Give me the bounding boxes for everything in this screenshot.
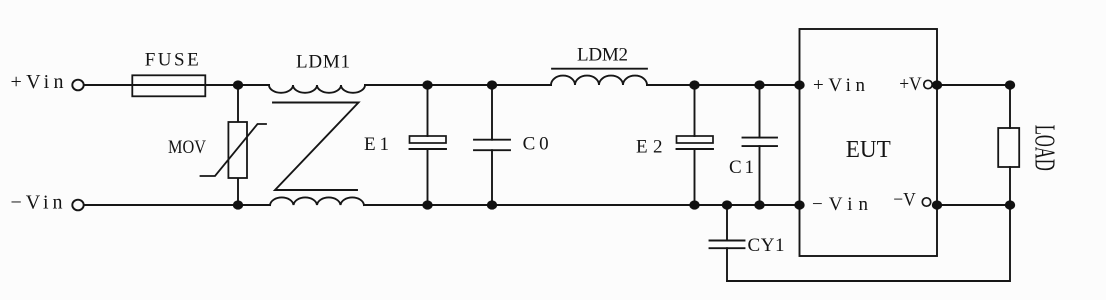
- capacitor C1: [743, 85, 778, 205]
- svg-text:+V: +V: [899, 74, 922, 95]
- svg-text:−V: −V: [893, 190, 916, 211]
- svg-text:−Vin: −Vin: [11, 191, 63, 213]
- terminal +Vin: [72, 80, 83, 91]
- junction dot C0 bottom: [487, 200, 497, 209]
- capacitor E2: [677, 85, 714, 205]
- junction dot C0 top: [487, 80, 497, 89]
- wire top rail left: [84, 84, 269, 86]
- svg-text:+Vin: +Vin: [813, 75, 866, 96]
- svg-text:−Vin: −Vin: [812, 194, 869, 215]
- wire bottom rail left: [84, 204, 270, 206]
- junction dot fuse/MOV top: [233, 80, 243, 89]
- junction dot C1 top: [754, 80, 764, 89]
- wire +Vo to LOAD: [937, 84, 1010, 86]
- terminal -Vin: [72, 200, 83, 211]
- junction dot -Vo: [932, 200, 942, 209]
- junction dot E1 top: [422, 80, 432, 89]
- junction dot LOAD bottom: [1005, 200, 1015, 209]
- svg-text:LOAD: LOAD: [1029, 125, 1060, 171]
- svg-text:EUT: EUT: [846, 137, 891, 163]
- varistor MOV: [201, 85, 267, 205]
- junction dot E2 bottom: [689, 200, 699, 209]
- choke LDM1 top winding: [269, 85, 365, 93]
- junction dot EUT +Vin pin: [794, 80, 804, 89]
- svg-text:+Vin: +Vin: [11, 71, 64, 93]
- junction dot LOAD top: [1005, 80, 1015, 89]
- capacitor E1: [410, 85, 447, 205]
- wire CY1 bottom return: [727, 205, 1010, 281]
- junction dot +Vo: [932, 80, 942, 89]
- choke LDM1 core Z: [273, 103, 359, 191]
- wire top rail middle: [365, 84, 551, 86]
- wire -Vo to LOAD: [937, 204, 1010, 206]
- svg-text:LDM1: LDM1: [296, 52, 350, 73]
- wire bottom rail right: [364, 204, 799, 206]
- pin circle +Vo: [924, 80, 932, 88]
- svg-text:C1: C1: [729, 157, 754, 178]
- junction dot EUT -Vin pin: [794, 200, 804, 209]
- junction dot C1 bottom: [754, 200, 764, 209]
- wire top rail right: [647, 84, 799, 86]
- capacitor C0: [474, 85, 510, 205]
- pin circle -Vo: [922, 198, 930, 206]
- svg-text:CY1: CY1: [748, 235, 785, 256]
- fuse FUSE: [132, 75, 205, 96]
- junction dot MOV bottom: [233, 200, 243, 209]
- svg-text:MOV: MOV: [168, 137, 206, 158]
- EUT box: [800, 29, 938, 256]
- junction dot E2 top: [689, 80, 699, 89]
- junction dot CY1: [722, 200, 732, 209]
- svg-text:LDM2: LDM2: [577, 45, 628, 66]
- inductor LDM2: [551, 69, 647, 85]
- LOAD resistor: [998, 85, 1019, 205]
- choke LDM1 bottom winding: [270, 197, 364, 205]
- junction dot E1 bottom: [422, 200, 432, 209]
- capacitor CY1: [710, 205, 745, 281]
